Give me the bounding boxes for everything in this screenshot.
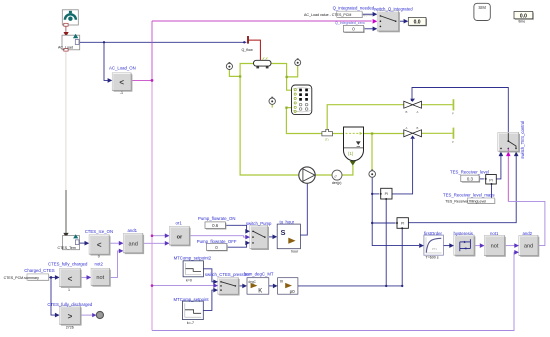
svg-text:<: < [97,241,102,250]
svg-text:0.0: 0.0 [520,13,527,19]
svg-text:time: time [519,20,526,24]
svg-text:-1: -1 [120,91,123,95]
svg-text:switch_Pump: switch_Pump [246,221,272,226]
svg-text:0.6: 0.6 [212,223,219,228]
svg-text:or: or [177,234,183,240]
svg-text:P: P [452,112,454,116]
svg-text:PI: PI [401,221,404,225]
svg-text:K: K [258,289,262,295]
svg-text:k=0: k=0 [186,278,192,282]
svg-text:TES_Receiver_level: TES_Receiver_level [450,170,489,175]
svg-text:TES_Receiver.fillingLevel: TES_Receiver.fillingLevel [445,200,486,204]
svg-text:T=600 s: T=600 s [426,256,439,260]
svg-text:B: B [406,110,408,114]
svg-text:2726: 2726 [66,325,74,329]
svg-text:AC_Load value - CTES_PCM: AC_Load value - CTES_PCM [304,13,351,17]
svg-text:switch_TES_control: switch_TES_control [520,121,525,159]
svg-text:to_hour: to_hour [280,219,295,224]
svg-text:PT1: PT1 [432,247,437,251]
svg-text:S: S [281,228,286,237]
svg-text:firstOrder: firstOrder [424,231,442,236]
svg-text:or1: or1 [176,220,183,225]
svg-text:<: < [68,274,73,283]
svg-text:PI: PI [489,178,493,182]
svg-text:(T): (T) [325,137,329,141]
svg-text:Q_integrated_needed: Q_integrated_needed [333,6,375,11]
svg-text:hour: hour [291,249,299,253]
svg-text:and2: and2 [523,231,533,236]
svg-text:CTES_fully_discharged: CTES_fully_discharged [47,302,93,307]
svg-text:1: 1 [68,288,70,292]
svg-text:B: B [417,126,419,130]
svg-text:and: and [129,242,138,248]
svg-text:CTES_Ice_ON: CTES_Ice_ON [85,229,113,234]
svg-text:TES_Receiver_level_mass: TES_Receiver_level_mass [443,192,495,197]
svg-text:hysteresis: hysteresis [454,231,473,236]
svg-text:Charged_CTES: Charged_CTES [24,268,54,273]
svg-text:SIM: SIM [478,5,486,10]
svg-text:AC_Load: AC_Load [58,46,73,50]
svg-text:AC_Load_ON: AC_Load_ON [109,65,136,70]
svg-text:CTES_PCM.summary: CTES_PCM.summary [4,276,40,280]
svg-text:P: P [452,140,454,144]
svg-text:CTES_fully_charged: CTES_fully_charged [48,262,88,267]
svg-text:Q_flow: Q_flow [242,48,254,52]
svg-text:not1: not1 [490,231,499,236]
svg-text:0.3: 0.3 [467,176,474,181]
svg-text:switch_Q_integrated: switch_Q_integrated [374,6,414,11]
svg-text:d: d [335,174,337,178]
svg-text:degC: degC [248,280,256,284]
svg-text:k=-7: k=-7 [187,321,194,325]
svg-text:(1): (1) [348,151,354,156]
svg-text:not2: not2 [95,262,104,267]
svg-text:approx: approx [363,13,373,17]
svg-text:der(p): der(p) [332,181,342,185]
svg-text:p0: p0 [290,289,296,294]
svg-text:from_degC_MT: from_degC_MT [244,272,274,277]
svg-text:not: not [96,275,104,281]
svg-text:PI: PI [385,192,388,196]
svg-text:MTComp_setpoint: MTComp_setpoint [174,297,210,302]
svg-text:Pump_flowrate_OFF: Pump_flowrate_OFF [197,239,237,244]
svg-text:>: > [68,312,73,321]
svg-text:MTComp_setpoint2: MTComp_setpoint2 [174,255,212,260]
svg-text:A: A [406,126,408,130]
svg-text:0.0: 0.0 [414,20,421,26]
svg-text:not: not [491,244,499,250]
svg-text:Q_integrated_zero: Q_integrated_zero [335,21,365,25]
svg-text:CTES_Tem: CTES_Tem [58,246,76,250]
svg-text:Pump_flowrate_ON: Pump_flowrate_ON [198,216,236,221]
svg-text:0: 0 [98,254,100,258]
svg-text:A: A [417,110,419,114]
svg-text:<: < [119,78,124,87]
svg-text:and: and [524,244,533,250]
svg-text:and1: and1 [128,228,138,233]
